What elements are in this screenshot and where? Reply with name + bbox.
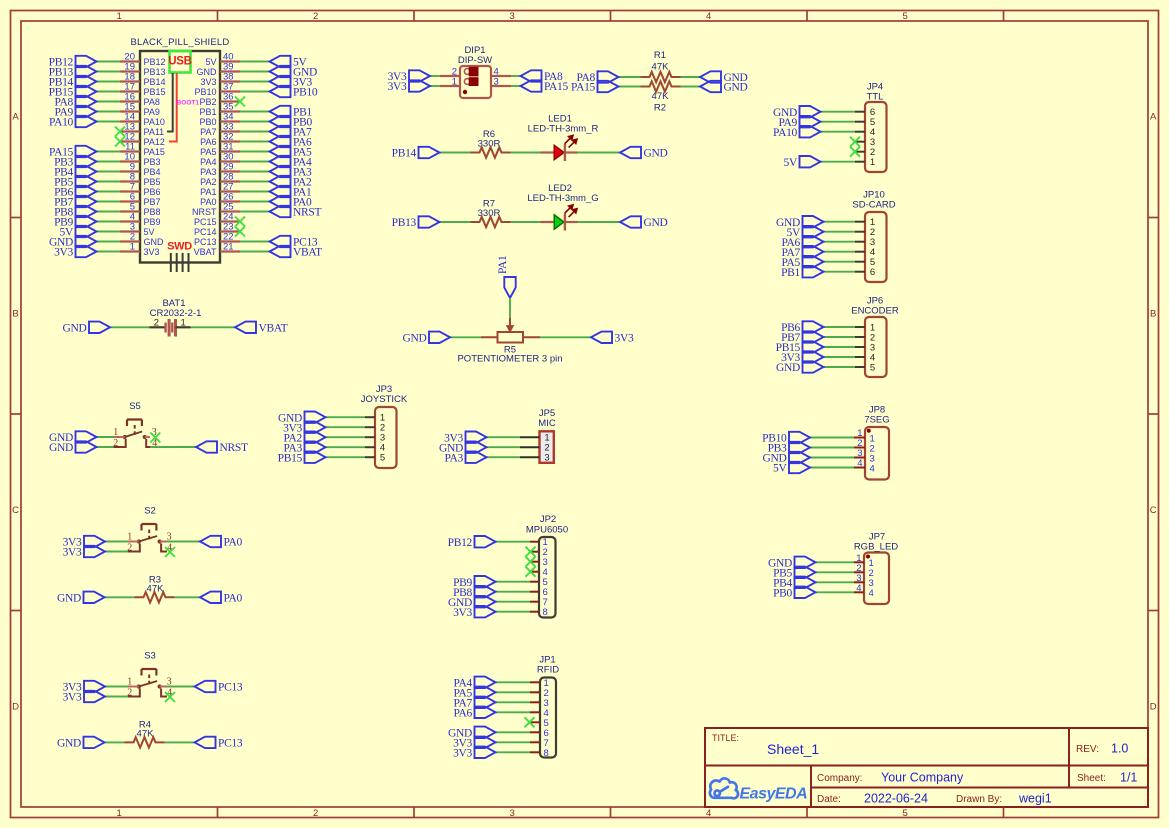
net flag U1 right pin 38 3V3 [270, 76, 291, 87]
net flag DIP1 3V3 top [409, 70, 430, 81]
svg-text:EasyEDA: EasyEDA [740, 786, 808, 803]
U1 pin 13 (PA11) left [120, 130, 140, 132]
net flag JP8 5V [789, 462, 810, 473]
net flag JP1 3V3 [475, 747, 496, 758]
net flag JP7 PB4 [795, 577, 816, 588]
net flag R1 PA8 [598, 71, 619, 82]
net flag JP10 PA6 [803, 236, 824, 247]
net flag JP4 PA9 [800, 116, 821, 127]
JP8 pin1 marker dot [867, 429, 871, 433]
net flag U1 left pin 16 PA8 [76, 96, 97, 107]
svg-text:PA10: PA10 [49, 117, 73, 129]
svg-text:PB15: PB15 [144, 87, 166, 97]
svg-text:2022-06-24: 2022-06-24 [864, 792, 928, 806]
JP3 pin 2 [365, 426, 375, 428]
U1 pin 26 (PA0) right [220, 200, 240, 202]
net flag JP2 GND [475, 596, 496, 607]
wire PA8 to R1 [619, 76, 641, 78]
wire PA1 to R5 wiper [509, 298, 511, 318]
svg-text:4: 4 [869, 588, 874, 599]
JP8 pin 1 [854, 437, 865, 439]
JP10 pin 5 [855, 261, 865, 263]
JP3 pin 5 [365, 456, 375, 458]
svg-text:GND: GND [402, 332, 426, 344]
svg-text:VBAT: VBAT [259, 322, 288, 334]
net flag S2 3V3 [84, 546, 105, 557]
net flag R1 GND [700, 71, 721, 82]
net flag JP3 PA2 [305, 432, 326, 443]
connector JP6 body [865, 317, 887, 377]
wire LED1 to GND [578, 152, 621, 154]
svg-text:3: 3 [510, 808, 515, 819]
svg-text:DIP-SW: DIP-SW [458, 55, 492, 66]
wire BAT1 to VBAT [191, 326, 236, 328]
wire PA6 to JP10 pin 3 [824, 241, 856, 243]
wire PA7 to JP1 pin 3 [496, 701, 531, 703]
net flag U1 right pin 40 5V [270, 56, 291, 67]
svg-text:USB: USB [168, 56, 191, 68]
U1 pin 4 (PB9) left [120, 220, 140, 222]
svg-text:6: 6 [870, 267, 875, 278]
svg-text:PA15: PA15 [571, 82, 595, 94]
svg-text:3V3: 3V3 [453, 747, 472, 759]
net flag JP4 GND [800, 106, 821, 117]
wire R6 to LED1 [511, 152, 541, 154]
JP3 pin 1 [365, 416, 375, 418]
svg-text:PA6: PA6 [200, 137, 216, 147]
U1 pin 29 (PA3) right [220, 170, 240, 172]
svg-text:PB5: PB5 [144, 177, 161, 187]
svg-text:PB13: PB13 [392, 217, 417, 229]
JP6 pin 2 [855, 336, 865, 338]
net flag JP1 GND [475, 727, 496, 738]
JP4 pin 4 [855, 131, 865, 133]
wire to pin 33 [240, 131, 270, 133]
svg-text:BOOT1: BOOT1 [177, 99, 200, 106]
JP4 pin 2 [855, 151, 865, 153]
net flag JP3 GND [305, 412, 326, 423]
svg-text:3V3: 3V3 [615, 332, 634, 344]
LED LED1 red [541, 151, 555, 153]
net flag DIP1 PA8 [521, 70, 542, 81]
svg-text:3V3: 3V3 [200, 77, 216, 87]
no-connect X JP2 pin 2 [526, 547, 536, 557]
wire to pin 8 [97, 181, 121, 183]
U1 pin 31 (PA5) right [220, 150, 240, 152]
net flag R2 PA15 [598, 81, 619, 92]
wire DIP1 pin4 to PA8 [511, 75, 521, 77]
net flag JP5 PA3 [466, 452, 487, 463]
resistor R7 [471, 217, 511, 227]
net flag JP1 PA6 [475, 707, 496, 718]
svg-text:5V: 5V [205, 57, 216, 67]
net flag JP2 PB8 [475, 586, 496, 597]
DIP1 pin 3 [491, 85, 511, 87]
wire to pin 20 [97, 61, 121, 63]
wire GND to JP5 pin 2 [487, 446, 521, 448]
svg-text:Drawn By:: Drawn By: [956, 794, 1002, 805]
svg-text:GND: GND [197, 67, 218, 77]
JP5 pin 3 [520, 456, 540, 458]
JP2 pin 6 [530, 591, 539, 593]
svg-text:1: 1 [452, 76, 457, 87]
JP4 pin 1 [855, 161, 865, 163]
wire to pin 28 [240, 181, 270, 183]
connector JP10 body [865, 212, 887, 282]
no-connect X S3 pin4 [165, 692, 175, 702]
R5 pin left [481, 336, 498, 338]
U1 pin 9 (PB4) left [120, 170, 140, 172]
border row ticks left [11, 217, 22, 219]
net flag U1 right pin 34 PB0 [270, 116, 291, 127]
wire 5V to JP4 pin 1 [821, 161, 856, 163]
wire PA3 to JP3 pin 4 [326, 446, 366, 448]
JP3 pin 4 [365, 446, 375, 448]
U1 pin 23 (PC14) right [220, 230, 240, 232]
svg-text:PA12: PA12 [144, 137, 165, 147]
JP1 pin 3 [530, 701, 540, 703]
svg-text:PA2: PA2 [200, 177, 216, 187]
svg-text:REV:: REV: [1076, 744, 1099, 755]
JP4 pin 5 [855, 121, 865, 123]
border row ticks right [1148, 217, 1159, 219]
net flag R4 PC13 [195, 737, 216, 748]
net flag JP2 PB12 [475, 536, 496, 547]
DIP1 pin 4 [491, 75, 511, 77]
wire to pin 7 [97, 191, 121, 193]
svg-text:2: 2 [313, 11, 318, 22]
border column ticks bottom [217, 807, 219, 818]
switch S5 actuator [127, 420, 142, 427]
title block frame [705, 728, 1148, 807]
switch S3 pin 1 [128, 686, 139, 688]
net flag JP10 GND [803, 216, 824, 227]
svg-text:PA0: PA0 [224, 592, 243, 604]
switch S2 actuator [142, 524, 157, 531]
wire PB7 to JP6 pin 2 [824, 336, 856, 338]
svg-text:B: B [12, 309, 18, 320]
net flag U1 left pin 14 PA10 [76, 116, 97, 127]
net flag JP10 PA5 [803, 256, 824, 267]
net flag LED1 GND [620, 147, 641, 158]
svg-text:PA7: PA7 [200, 127, 216, 137]
net flag U1 left pin 1 3V3 [76, 246, 97, 257]
net flag U1 right pin 39 GND [270, 66, 291, 77]
wire 3V3 to JP2 pin 8 [496, 611, 531, 613]
net flag U1 left pin 6 PB7 [76, 196, 97, 207]
switch S3 actuator [142, 669, 157, 676]
svg-text:MPU6050: MPU6050 [526, 525, 568, 536]
JP5 pin 1 [520, 436, 540, 438]
JP4 pin 3 [855, 141, 865, 143]
svg-text:PA3: PA3 [200, 167, 216, 177]
wire to pin 5 [97, 211, 121, 213]
svg-text:1: 1 [117, 11, 122, 22]
wire USB D+ to PA12 [169, 73, 177, 142]
svg-text:8: 8 [543, 607, 548, 618]
svg-text:4: 4 [857, 458, 862, 469]
no-connect X U1 pin 23 [235, 227, 245, 237]
svg-text:PB1: PB1 [781, 267, 800, 279]
svg-text:GND: GND [49, 442, 73, 454]
svg-text:PA1: PA1 [497, 255, 509, 274]
svg-text:GND: GND [57, 592, 81, 604]
net flag S3 PC13 [195, 681, 216, 692]
wire PA5 to JP10 pin 5 [824, 261, 856, 263]
wire R5 to 3V3 [540, 336, 591, 338]
wire PA6 to JP1 pin 4 [496, 711, 531, 713]
svg-text:PA15: PA15 [144, 147, 165, 157]
wire 5V to JP10 pin 2 [824, 231, 856, 233]
svg-text:7SEG: 7SEG [864, 415, 889, 426]
net flag JP6 3V3 [803, 351, 824, 362]
switch S2 pin 1 [128, 541, 139, 543]
net flag LED2 GND [620, 216, 641, 227]
svg-text:3V3: 3V3 [144, 247, 160, 257]
JP8 pin 3 [854, 457, 865, 459]
U1 pin 17 (PB15) left [120, 90, 140, 92]
svg-text:PA1: PA1 [200, 187, 216, 197]
wire GND to R3 [105, 596, 135, 598]
net flag JP5 3V3 [466, 432, 487, 443]
svg-text:PB10: PB10 [194, 87, 216, 97]
U1 pin 38 (3V3) right [220, 80, 240, 82]
svg-text:S3: S3 [144, 651, 156, 662]
svg-text:PA11: PA11 [144, 127, 165, 137]
U1 pin 15 (PA9) left [120, 110, 140, 112]
svg-text:2: 2 [113, 438, 118, 449]
switch S2 pin 2 [128, 544, 140, 552]
wire to pin 27 [240, 191, 270, 193]
no-connect X JP4 pin 2 [850, 147, 860, 157]
U1 pin 32 (PA6) right [220, 140, 240, 142]
border column ticks top [217, 11, 219, 22]
wire to pin 15 [97, 111, 121, 113]
wire PB3 to JP8 pin 2 [810, 447, 854, 449]
wire LED2 to GND [578, 221, 621, 223]
net flag U1 right pin 25 NRST [270, 206, 291, 217]
svg-text:Date:: Date: [817, 794, 841, 805]
svg-text:GND: GND [724, 82, 748, 94]
JP3 pin 3 [365, 436, 375, 438]
net flag U1 right pin 29 PA3 [270, 166, 291, 177]
U1 pin 37 (PB10) right [220, 90, 240, 92]
svg-text:PA4: PA4 [200, 157, 216, 167]
wire GND to JP10 pin 1 [824, 221, 856, 223]
net flag JP4 5V [800, 156, 821, 167]
svg-text:1: 1 [127, 676, 132, 687]
JP2 pin 8 [530, 611, 539, 613]
U1 pin 34 (PB0) right [220, 120, 240, 122]
wire to pin 2 [97, 241, 121, 243]
net flag S5 GND [76, 441, 97, 452]
svg-text:PA9: PA9 [144, 107, 160, 117]
net flag JP1 PA7 [475, 697, 496, 708]
net flag JP3 PA3 [305, 442, 326, 453]
net flag U1 right pin 31 PA5 [270, 146, 291, 157]
DIP1 switch slider 2 [469, 77, 479, 86]
svg-text:PB14: PB14 [144, 77, 166, 87]
net flag JP6 PB7 [803, 331, 824, 342]
net flag U1 right pin 21 VBAT [270, 246, 291, 257]
net flag U1 left pin 7 PB6 [76, 186, 97, 197]
JP1 pin 7 [530, 741, 540, 743]
svg-text:PC14: PC14 [194, 227, 217, 237]
JP4 pin 6 [855, 111, 865, 113]
wire 3V3 to JP3 pin 2 [326, 426, 366, 428]
svg-text:Sheet:: Sheet: [1077, 773, 1106, 784]
switch S3 lever [139, 681, 157, 687]
wire PA3 to JP5 pin 3 [487, 456, 521, 458]
net flag U1 left pin 9 PB4 [76, 166, 97, 177]
no-connect X JP2 pin 4 [526, 567, 536, 577]
net flag PA1 vertical [504, 277, 515, 298]
svg-text:SWD: SWD [167, 241, 192, 253]
wire to pin 14 [97, 121, 121, 123]
svg-text:POTENTIOMETER 3 pin: POTENTIOMETER 3 pin [457, 354, 562, 365]
svg-text:GND: GND [144, 237, 165, 247]
wire GND to JP6 pin 5 [824, 366, 856, 368]
wire to pin 39 [240, 71, 270, 73]
U1 pin 30 (PA4) right [220, 160, 240, 162]
LED LED2 green [541, 221, 555, 223]
wire GND to switch S5 [97, 446, 114, 448]
net flag JP7 PB5 [795, 567, 816, 578]
net flag LED2 PB13 [419, 216, 440, 227]
svg-text:PC13: PC13 [194, 237, 217, 247]
EasyEDA logo cloud [710, 778, 738, 798]
net flag JP3 PB15 [305, 452, 326, 463]
net flag JP7 GND [795, 557, 816, 568]
wire to pin 37 [240, 91, 270, 93]
svg-text:BLACK_PILL_SHIELD: BLACK_PILL_SHIELD [131, 37, 230, 48]
U1 pin 36 (PB2) right [220, 100, 240, 102]
svg-text:JOYSTICK: JOYSTICK [361, 394, 408, 405]
resistor R2 [641, 81, 681, 91]
wire to pin 30 [240, 161, 270, 163]
net flag U1 left pin 20 PB12 [76, 56, 97, 67]
wire GND to R5 [450, 336, 481, 338]
U1 pin 3 (5V) left [120, 230, 140, 232]
wire to pin 6 [97, 201, 121, 203]
svg-text:PA8: PA8 [144, 97, 160, 107]
wire PB12 to JP2 pin 1 [496, 541, 531, 543]
svg-text:PC13: PC13 [218, 682, 243, 694]
svg-text:5: 5 [903, 11, 908, 22]
JP2 pin 1 [530, 541, 539, 543]
wire S5 pin4 to NRST [150, 446, 196, 448]
svg-text:3V3: 3V3 [388, 81, 407, 93]
svg-text:Company:: Company: [817, 773, 863, 784]
svg-text:GND: GND [776, 362, 800, 374]
SWD header pins [170, 253, 172, 272]
wire PA2 to JP3 pin 3 [326, 436, 366, 438]
svg-text:47K: 47K [652, 91, 670, 102]
net flag U1 left pin 11 PA15 [76, 146, 97, 157]
net flag R5 3V3 [591, 332, 612, 343]
wire GND to JP2 pin 7 [496, 601, 531, 603]
wire to pin 34 [240, 121, 270, 123]
wire to pin 10 [97, 161, 121, 163]
svg-text:4: 4 [706, 808, 711, 819]
net flag JP7 PB0 [795, 587, 816, 598]
svg-text:VBAT: VBAT [293, 247, 322, 259]
JP7 pin1 marker dot [866, 555, 870, 559]
net flag JP8 PB10 [789, 432, 810, 443]
wire 3V3 to DIP1 pin2 [430, 75, 440, 77]
svg-text:3V3: 3V3 [54, 247, 73, 259]
JP8 pin 4 [854, 467, 865, 469]
connector JP1 body [540, 678, 556, 758]
net flag JP4 PA10 [800, 126, 821, 137]
net flag U1 right pin 26 PA0 [270, 196, 291, 207]
resistor R3 [135, 592, 175, 602]
wire PA9 to JP4 pin 5 [821, 121, 856, 123]
svg-text:PA10: PA10 [773, 127, 797, 139]
svg-text:1: 1 [181, 317, 186, 328]
svg-text:PB7: PB7 [144, 197, 161, 207]
connector JP5 body [540, 431, 554, 463]
wire R2 to GND [681, 86, 701, 88]
connector JP7 body [864, 553, 889, 605]
U1 pin 21 (VBAT) right [220, 250, 240, 252]
net flag BAT1 VBAT [235, 322, 256, 333]
wire to pin 25 [240, 211, 270, 213]
JP8 pin 2 [854, 447, 865, 449]
wire to pin 11 [97, 151, 121, 153]
svg-text:D: D [1150, 702, 1157, 713]
JP10 pin 3 [855, 241, 865, 243]
wire GND to R4 [105, 741, 125, 743]
net flag DIP1 3V3 bottom [409, 80, 430, 91]
net flag S5 GND [76, 431, 97, 442]
net flag U1 right pin 22 PC13 [270, 236, 291, 247]
net flag U1 right pin 27 PA1 [270, 186, 291, 197]
net flag JP6 PB15 [803, 341, 824, 352]
svg-text:PA6: PA6 [454, 707, 473, 719]
svg-text:5V: 5V [784, 157, 798, 169]
svg-text:PB0: PB0 [199, 117, 216, 127]
svg-text:1: 1 [113, 427, 118, 438]
DIP1 switch position circles [464, 69, 470, 75]
net flag U1 right pin 28 PA2 [270, 176, 291, 187]
svg-text:PB8: PB8 [144, 207, 161, 217]
net flag R2 GND [700, 81, 721, 92]
net flag R5 GND [429, 332, 450, 343]
wire GND to switch S5 [97, 436, 114, 438]
svg-text:TITLE:: TITLE: [712, 733, 739, 743]
wire GND to BAT1 [110, 326, 150, 328]
wire PB5 to JP7 pin 2 [816, 571, 855, 573]
wire 3V3 to switch S2 [105, 541, 128, 543]
wire DIP1 pin3 to PA15 [511, 85, 521, 87]
JP6 pin 3 [855, 346, 865, 348]
switch S3 pin 3 [160, 686, 167, 688]
svg-text:GND: GND [62, 322, 86, 334]
svg-text:GND: GND [644, 148, 668, 160]
potentiometer R5 body [498, 332, 524, 343]
wire PA15 to R2 [619, 86, 641, 88]
wire PA10 to JP4 pin 4 [821, 131, 856, 133]
wire PB15 to JP6 pin 3 [824, 346, 856, 348]
switch S2 lever [139, 536, 157, 542]
U1 pin 20 (PB12) left [120, 60, 140, 62]
JP2 pin 5 [530, 581, 539, 583]
net flag JP1 PA4 [475, 677, 496, 688]
resistor R1 [641, 72, 681, 82]
svg-text:NRST: NRST [220, 442, 248, 454]
svg-text:8: 8 [544, 748, 549, 759]
